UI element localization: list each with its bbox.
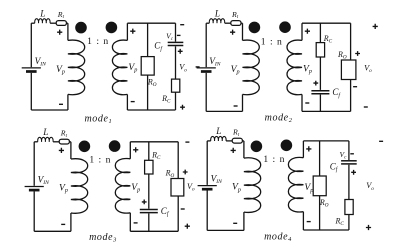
polarity dot primary (mode 1) bbox=[75, 22, 87, 34]
minus mark secondary (mode 1) bbox=[131, 101, 135, 103]
transformer primary winding (mode 4) bbox=[244, 158, 261, 213]
svg-text:L: L bbox=[214, 8, 220, 18]
voltage source VIN (mode 1) bbox=[22, 68, 41, 72]
transformer secondary winding (mode 3) bbox=[115, 158, 130, 213]
inductor L (mode 3) bbox=[38, 137, 53, 142]
transformer secondary winding (mode 1) bbox=[112, 40, 127, 95]
polarity dot primary (mode 4) bbox=[251, 141, 263, 153]
resistor Rt (mode 2) bbox=[231, 21, 241, 26]
wire: right branch (mode 2) bbox=[350, 23, 352, 111]
wire: right branch (mode 1) bbox=[175, 23, 177, 110]
minus mark secondary (mode 2) bbox=[305, 102, 309, 104]
svg-text:1 : n: 1 : n bbox=[87, 36, 109, 47]
transformer primary winding (mode 2) bbox=[243, 40, 260, 95]
minus mark secondary (mode 4) bbox=[307, 221, 311, 223]
wire: secondary loop (mode 1) bbox=[127, 23, 175, 110]
wire: right branch (mode 4) bbox=[348, 141, 350, 230]
wire: primary loop left/top/bottom (mode 3) bbox=[34, 142, 71, 232]
minus mark below RO (mode 2) bbox=[353, 86, 357, 88]
plus mark bottom-right (mode 1) bbox=[180, 105, 185, 110]
wire: primary loop left/top/bottom (mode 4) bbox=[207, 141, 244, 231]
svg-text:1 : n: 1 : n bbox=[263, 154, 285, 165]
plus mark above RO (mode 3) bbox=[183, 170, 188, 175]
plus mark far right top (mode 2) bbox=[373, 24, 378, 29]
wire: middle branch (mode 2) bbox=[319, 23, 321, 111]
polarity dot secondary (mode 1) bbox=[106, 22, 118, 34]
plus mark above Cf (mode 3) bbox=[142, 200, 147, 205]
minus mark far right top (mode 4) bbox=[379, 140, 383, 142]
resistor RO (mode 4) bbox=[313, 176, 326, 196]
voltage source VIN (mode 2) bbox=[197, 68, 216, 72]
wire: middle branch (mode 4) bbox=[319, 141, 321, 230]
capacitor Cf (mode 4) bbox=[341, 161, 357, 164]
plus mark secondary (mode 4) bbox=[306, 146, 311, 151]
polarity dot primary (mode 2) bbox=[249, 22, 261, 34]
svg-text:mode3: mode3 bbox=[89, 232, 117, 243]
resistor RC (mode 3) bbox=[145, 160, 153, 174]
minus mark far right bottom (mode 2) bbox=[364, 106, 368, 108]
capacitor Cf (mode 2) bbox=[311, 91, 329, 94]
polarity dot secondary (mode 4) bbox=[281, 140, 293, 152]
wire: middle branch (mode 3) bbox=[148, 142, 150, 232]
resistor RO (mode 3) bbox=[171, 179, 184, 197]
svg-text:1 : n: 1 : n bbox=[261, 36, 283, 47]
wire: secondary loop (mode 2) bbox=[302, 23, 351, 111]
minus mark top-right (mode 1) bbox=[180, 24, 184, 26]
resistor RO (mode 2) bbox=[341, 60, 356, 80]
minus mark far right top (mode 3) bbox=[185, 141, 189, 143]
inductor L (mode 1) bbox=[35, 19, 50, 24]
plus mark above Cf (mode 2) bbox=[313, 81, 318, 86]
plus mark above RO (mode 2) bbox=[355, 51, 360, 56]
plus mark far right bottom (mode 4) bbox=[366, 225, 371, 230]
capacitor Cf (mode 3) bbox=[140, 210, 158, 213]
svg-text:1 : n: 1 : n bbox=[89, 155, 111, 166]
minus mark below RO (mode 3) bbox=[181, 208, 185, 210]
minus mark primary (mode 2) bbox=[234, 105, 238, 107]
plus mark secondary (mode 2) bbox=[305, 29, 310, 34]
wire: secondary loop (mode 3) bbox=[130, 142, 178, 232]
svg-text:mode4: mode4 bbox=[264, 232, 292, 243]
plus mark far right bottom (mode 3) bbox=[185, 224, 190, 229]
voltage source VIN (mode 3) bbox=[25, 187, 44, 191]
plus mark primary (mode 2) bbox=[230, 30, 235, 35]
transformer primary winding (mode 3) bbox=[71, 159, 88, 214]
resistor RC (mode 1) bbox=[172, 79, 180, 92]
plus mark below Cf (mode 4) bbox=[351, 170, 356, 175]
transformer secondary winding (mode 2) bbox=[287, 40, 302, 95]
plus mark primary (mode 4) bbox=[231, 148, 236, 153]
wire: secondary loop (mode 4) bbox=[303, 141, 349, 230]
plus mark below Cf (mode 1) bbox=[178, 49, 183, 54]
inductor L (mode 4) bbox=[211, 136, 226, 141]
svg-text:L: L bbox=[39, 8, 45, 18]
transformer secondary winding (mode 4) bbox=[288, 157, 303, 212]
transformer primary winding (mode 1) bbox=[68, 40, 85, 95]
minus mark secondary (mode 3) bbox=[134, 222, 138, 224]
minus mark primary (mode 1) bbox=[59, 103, 63, 105]
resistor Rt (mode 4) bbox=[232, 138, 242, 143]
resistor RC (mode 2) bbox=[316, 43, 324, 57]
minus mark Vc (mode 1) bbox=[177, 34, 181, 36]
resistor Rt (mode 3) bbox=[59, 139, 69, 144]
minus mark Vc (mode 4) bbox=[350, 153, 354, 155]
svg-text:mode2: mode2 bbox=[265, 113, 293, 124]
wire: right branch (mode 3) bbox=[177, 142, 179, 232]
minus mark primary (mode 3) bbox=[61, 223, 65, 225]
svg-text:mode1: mode1 bbox=[84, 114, 112, 125]
capacitor Cf (mode 1) bbox=[168, 42, 184, 45]
svg-text:L: L bbox=[42, 127, 48, 137]
wire: middle branch (mode 1) bbox=[147, 23, 149, 110]
polarity dot secondary (mode 3) bbox=[109, 140, 121, 152]
polarity dot secondary (mode 2) bbox=[279, 21, 291, 33]
polarity dot primary (mode 3) bbox=[79, 141, 91, 153]
plus mark secondary (mode 3) bbox=[133, 147, 138, 152]
resistor Rt (mode 1) bbox=[56, 21, 66, 26]
svg-text:L: L bbox=[215, 126, 221, 136]
resistor RO (mode 1) bbox=[141, 57, 154, 76]
wire: primary loop left/top/bottom (mode 1) bbox=[31, 23, 68, 110]
inductor L (mode 2) bbox=[209, 19, 224, 24]
plus mark primary (mode 1) bbox=[57, 30, 62, 35]
minus mark far right (mode 1) bbox=[196, 66, 200, 68]
minus mark primary (mode 4) bbox=[233, 222, 237, 224]
plus mark secondary (mode 1) bbox=[130, 29, 135, 34]
voltage source VIN (mode 4) bbox=[198, 186, 217, 190]
resistor RC (mode 4) bbox=[345, 200, 353, 215]
wire: primary loop left/top/bottom (mode 2) bbox=[206, 23, 242, 111]
plus mark primary (mode 3) bbox=[59, 148, 64, 153]
